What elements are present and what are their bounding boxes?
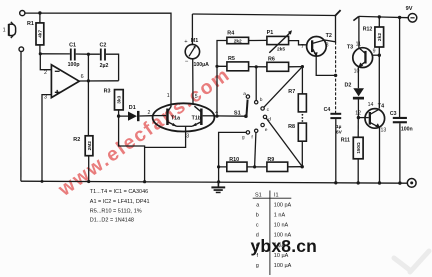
svg-text:T1a: T1a bbox=[171, 115, 180, 121]
wire D2 to R11 bbox=[357, 118, 359, 138]
bottom 0V rail bbox=[21, 181, 407, 183]
T1b bbox=[200, 109, 203, 126]
node R3 D1 junction bbox=[117, 114, 120, 117]
emitter bus bbox=[177, 125, 193, 127]
svg-text:b: b bbox=[260, 97, 263, 103]
svg-text:12: 12 bbox=[355, 111, 361, 117]
svg-text:R9: R9 bbox=[267, 157, 274, 163]
table lines bbox=[253, 191, 292, 276]
diode D2 bbox=[345, 83, 365, 118]
pole wire bbox=[214, 115, 245, 117]
wire left ground drop bbox=[20, 52, 22, 182]
svg-text:R7: R7 bbox=[288, 89, 295, 95]
rail A end tick bbox=[335, 10, 341, 16]
svg-text:9V: 9V bbox=[406, 6, 413, 12]
terminal 9V bbox=[406, 6, 417, 22]
node output feedback junction bbox=[87, 79, 90, 82]
svg-text:D1...D2 = 1N4148: D1...D2 = 1N4148 bbox=[90, 217, 134, 223]
svg-text:R12: R12 bbox=[363, 26, 373, 32]
capacitor C4 bbox=[324, 107, 343, 183]
svg-text:R5: R5 bbox=[228, 56, 235, 62]
microphone X1 bbox=[3, 22, 16, 38]
node C1 C2 junction bbox=[87, 53, 90, 56]
svg-text:A1 = IC2 = LF411, DP41: A1 = IC2 = LF411, DP41 bbox=[90, 199, 150, 205]
resistor R8 bbox=[288, 123, 306, 167]
svg-text:R6: R6 bbox=[268, 57, 275, 63]
resistor R7 bbox=[288, 67, 306, 112]
svg-text:a: a bbox=[256, 202, 260, 208]
node rail C3 bbox=[398, 181, 401, 184]
wire R7 column diagonal from c bbox=[264, 67, 303, 108]
capacitor C1 bbox=[40, 42, 88, 68]
wire op-amp non-inverting input to ground rail bbox=[42, 95, 51, 182]
resistor R3 bbox=[104, 89, 124, 117]
svg-text:C3: C3 bbox=[390, 111, 397, 117]
svg-text:1: 1 bbox=[3, 28, 6, 34]
node rail pin3 bbox=[41, 180, 44, 183]
svg-text:R3: R3 bbox=[104, 89, 111, 95]
svg-text:100 µA: 100 µA bbox=[274, 263, 292, 269]
node R6 R7 bbox=[301, 65, 304, 68]
capacitor C2 bbox=[88, 43, 118, 81]
wire +9V rail A bbox=[192, 14, 335, 16]
terminal input bottom bbox=[19, 47, 24, 52]
terminal 0V bbox=[407, 179, 416, 188]
svg-text:10 nA: 10 nA bbox=[274, 223, 289, 229]
svg-text:14: 14 bbox=[368, 102, 374, 108]
svg-text:1µ: 1µ bbox=[336, 124, 342, 130]
svg-text:2k2: 2k2 bbox=[234, 39, 242, 45]
node R4 R5 tap bbox=[215, 65, 218, 68]
node g column R10 bbox=[217, 165, 220, 168]
node g column rail bbox=[217, 180, 220, 183]
svg-text:2: 2 bbox=[44, 70, 47, 76]
svg-text:d: d bbox=[268, 116, 271, 122]
svg-text:C4: C4 bbox=[324, 107, 331, 113]
diode D1 bbox=[119, 105, 153, 121]
meter M1 bbox=[184, 14, 209, 104]
svg-text:D2: D2 bbox=[345, 83, 352, 89]
svg-text:T1...T4 = IC1 = CA3046: T1...T4 = IC1 = CA3046 bbox=[90, 189, 148, 195]
svg-text:c: c bbox=[256, 223, 259, 229]
wire T2 column bbox=[335, 42, 337, 113]
svg-text:D1: D1 bbox=[129, 105, 136, 111]
svg-text:100p: 100p bbox=[68, 62, 80, 68]
watermark faint corner mark bbox=[394, 251, 429, 272]
node R8 R9 bbox=[301, 165, 304, 168]
table S1 I1 bbox=[255, 193, 292, 269]
resistor R12 bbox=[363, 17, 384, 109]
svg-text:a: a bbox=[243, 92, 246, 97]
resistor R4 bbox=[217, 31, 267, 117]
rail B left tick bbox=[353, 16, 359, 20]
svg-text:P1: P1 bbox=[267, 30, 274, 36]
svg-text:2: 2 bbox=[148, 110, 151, 116]
svg-text:100 pA: 100 pA bbox=[274, 202, 292, 208]
potentiometer P1 bbox=[267, 30, 307, 53]
svg-text:2µ2: 2µ2 bbox=[100, 63, 109, 69]
capacitor C3 bbox=[390, 17, 413, 183]
svg-text:3k3: 3k3 bbox=[117, 95, 123, 103]
svg-text:R10: R10 bbox=[229, 157, 239, 163]
svg-text:I1: I1 bbox=[274, 193, 279, 199]
wire +9V rail B bbox=[359, 16, 408, 17]
svg-text:C2: C2 bbox=[99, 43, 106, 49]
svg-text:g: g bbox=[256, 263, 259, 269]
wiper bbox=[247, 100, 248, 116]
svg-text:150Ω: 150Ω bbox=[356, 142, 361, 154]
wire diagonal from d bbox=[266, 118, 302, 166]
svg-text:c: c bbox=[267, 108, 270, 113]
wire T3 emitter bbox=[357, 67, 359, 88]
svg-text:f: f bbox=[251, 135, 253, 141]
node pole tap bbox=[215, 115, 218, 118]
resistor R10 bbox=[219, 157, 267, 172]
node R10 R9 bbox=[253, 165, 256, 168]
contact a bbox=[246, 95, 249, 98]
T1a bbox=[166, 109, 169, 126]
svg-text:8: 8 bbox=[326, 42, 329, 48]
node rail T4 bbox=[378, 181, 381, 184]
svg-text:9: 9 bbox=[373, 48, 376, 54]
op-amp A1 bbox=[44, 65, 84, 101]
wire op-amp inverting input bbox=[40, 54, 51, 70]
wire T4 emitter bbox=[379, 128, 381, 184]
node R12 T3 base bbox=[378, 54, 381, 57]
wire pin3 emitters to ground path bbox=[145, 126, 186, 147]
resistor R1 bbox=[27, 13, 44, 54]
svg-text:R11: R11 bbox=[341, 137, 350, 143]
resistor R11 bbox=[341, 137, 363, 183]
contact g bbox=[246, 131, 249, 134]
svg-text:R1: R1 bbox=[27, 21, 34, 27]
node input rail junction bbox=[38, 11, 41, 14]
dotted continuation bbox=[302, 114, 304, 122]
svg-text:S1: S1 bbox=[255, 193, 262, 199]
svg-text:M1: M1 bbox=[191, 38, 199, 44]
svg-text:+: + bbox=[184, 39, 188, 45]
watermark www.elecfans.com bbox=[54, 63, 235, 201]
svg-text:−: − bbox=[185, 59, 189, 65]
node rail C4 bbox=[334, 181, 337, 184]
wire T2 emitter to C4 bbox=[316, 56, 335, 76]
svg-text:2k5: 2k5 bbox=[277, 46, 285, 52]
wire feedback vertical bbox=[87, 54, 89, 136]
transistor T2 bbox=[301, 16, 336, 57]
wire D1 node to ground path bbox=[119, 116, 145, 182]
svg-text:b: b bbox=[256, 212, 259, 218]
wire top input rail bbox=[25, 13, 171, 107]
svg-text:R5...R10 = 511Ω, 1%: R5...R10 = 511Ω, 1% bbox=[90, 208, 142, 214]
svg-text:2M2: 2M2 bbox=[87, 141, 93, 151]
resistor R6 bbox=[267, 57, 303, 72]
svg-text:R2: R2 bbox=[73, 137, 80, 143]
notes text bbox=[90, 189, 150, 223]
node R2 ground bbox=[87, 180, 90, 183]
wire g to ground column bbox=[219, 132, 247, 182]
svg-text:T1b: T1b bbox=[192, 115, 201, 121]
ground symbol bbox=[211, 182, 225, 193]
node rail R11 bbox=[357, 181, 360, 184]
svg-text:T3: T3 bbox=[347, 44, 353, 50]
svg-text:7: 7 bbox=[301, 44, 304, 50]
wire f to R9 R10 junction bbox=[255, 133, 256, 167]
node left path ground bbox=[143, 180, 146, 183]
node R1 bottom / C1 bbox=[39, 52, 42, 55]
svg-text:R8: R8 bbox=[288, 124, 295, 130]
svg-text:C1: C1 bbox=[69, 42, 76, 48]
node rail R12 bbox=[378, 15, 381, 18]
resistor R2 bbox=[73, 136, 93, 182]
svg-text:13: 13 bbox=[381, 127, 387, 133]
svg-text:4k7: 4k7 bbox=[38, 30, 44, 38]
node rail C3 bbox=[398, 16, 401, 19]
contact b bbox=[255, 101, 258, 104]
node emitter C4 junction bbox=[334, 74, 337, 77]
svg-text:T2: T2 bbox=[326, 33, 332, 39]
svg-text:S1: S1 bbox=[234, 110, 241, 116]
switch S1 bbox=[214, 67, 271, 141]
contact d bbox=[263, 115, 266, 118]
node R5 R6 bbox=[255, 65, 258, 68]
wire op-amp output bbox=[79, 80, 118, 82]
svg-text:5: 5 bbox=[195, 94, 198, 100]
svg-text:100µA: 100µA bbox=[194, 62, 210, 68]
svg-text:6V: 6V bbox=[336, 130, 343, 136]
resistor R9 bbox=[267, 157, 302, 172]
svg-text:R4: R4 bbox=[227, 31, 234, 37]
svg-text:3: 3 bbox=[186, 133, 189, 139]
node D2 T4 base bbox=[357, 116, 360, 119]
svg-text:e: e bbox=[265, 128, 268, 133]
svg-text:ybx8.cn: ybx8.cn bbox=[251, 236, 318, 256]
svg-text:6: 6 bbox=[81, 74, 84, 80]
svg-text:1 nA: 1 nA bbox=[274, 212, 286, 218]
transistor T4 bbox=[355, 102, 386, 133]
resistor R5 bbox=[217, 56, 267, 71]
terminal input top bbox=[20, 11, 25, 16]
svg-text:11: 11 bbox=[356, 42, 361, 48]
contact c bbox=[261, 107, 264, 110]
transistor T3 bbox=[347, 17, 379, 75]
contact f bbox=[255, 129, 258, 132]
svg-text:2k2: 2k2 bbox=[377, 33, 383, 41]
svg-text:100n: 100n bbox=[401, 126, 413, 132]
svg-text:3: 3 bbox=[44, 95, 47, 101]
svg-text:T4: T4 bbox=[378, 103, 384, 109]
svg-text:g: g bbox=[242, 136, 245, 141]
contact e bbox=[261, 123, 264, 126]
svg-text:1: 1 bbox=[167, 93, 170, 99]
transistor pair T1a T1b (IC1) bbox=[153, 103, 215, 131]
